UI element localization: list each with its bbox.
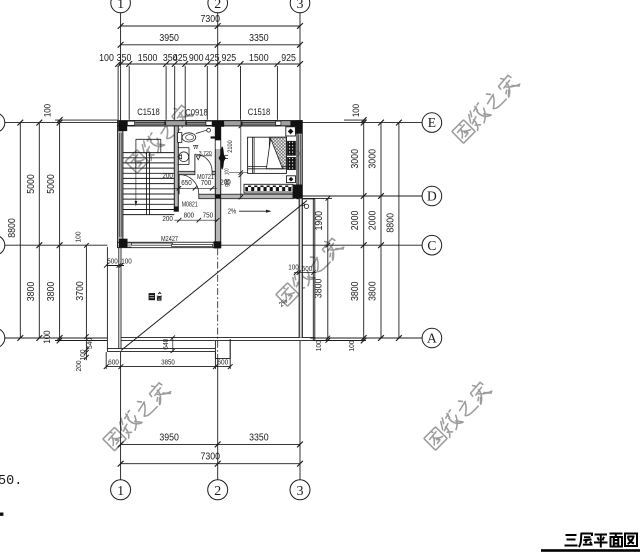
svg-text:3000: 3000 xyxy=(367,149,378,169)
watermark 1 (stairs area) xyxy=(123,102,195,174)
east wall axis3 with window xyxy=(297,121,302,199)
svg-text:7300: 7300 xyxy=(201,452,221,463)
svg-text:50.: 50. xyxy=(0,474,22,489)
svg-text:C: C xyxy=(427,238,436,253)
grid bubble E right xyxy=(422,113,442,133)
svg-text:100: 100 xyxy=(43,104,53,117)
svg-text:800: 800 xyxy=(184,213,195,220)
svg-text:A: A xyxy=(427,331,437,346)
wall-face tick line D+100 right xyxy=(302,197,332,199)
svg-text:3350: 3350 xyxy=(249,33,269,44)
svg-text:500: 500 xyxy=(107,257,118,266)
gutter top edge xyxy=(302,198,315,200)
axis C line right xyxy=(221,244,422,246)
bed blanket band xyxy=(248,165,287,167)
west wall axis1 xyxy=(118,126,123,247)
svg-text:100: 100 xyxy=(347,341,356,352)
svg-text:200: 200 xyxy=(162,173,173,180)
svg-text:3700: 3700 xyxy=(75,281,86,301)
flue duct symbol xyxy=(220,147,224,170)
cropped period xyxy=(0,513,3,516)
nightstand south xyxy=(287,176,296,183)
right chain 3000/2000/3800 xyxy=(380,123,382,338)
svg-text:2000: 2000 xyxy=(367,210,378,230)
svg-text:1500: 1500 xyxy=(249,53,269,64)
svg-text:425: 425 xyxy=(205,53,220,64)
wash basin counter xyxy=(178,147,189,149)
grid bubble D right xyxy=(422,186,442,206)
grid bubble C left (half) xyxy=(0,235,5,255)
svg-text:E: E xyxy=(428,115,436,130)
svg-text:3950: 3950 xyxy=(159,432,179,443)
axis 1 extension line bottom xyxy=(120,352,122,480)
bedroom south wall D xyxy=(221,194,293,199)
north wall E with windows xyxy=(118,121,302,126)
grid bubble 2 bottom xyxy=(208,480,228,500)
svg-text:100: 100 xyxy=(288,263,299,272)
svg-text:2%: 2% xyxy=(228,209,237,216)
axis A line left xyxy=(5,337,108,339)
axis D line right xyxy=(302,195,422,197)
svg-text:3800: 3800 xyxy=(367,281,378,301)
svg-text:C1518: C1518 xyxy=(137,107,160,118)
white frame block near axis2 xyxy=(206,121,212,125)
terrace dimension 600/3850/600 xyxy=(106,366,230,368)
svg-text:100: 100 xyxy=(42,330,52,343)
bed outline xyxy=(248,137,287,173)
svg-text:3850: 3850 xyxy=(161,358,175,367)
svg-text:100: 100 xyxy=(224,168,230,175)
svg-text:8800: 8800 xyxy=(385,213,396,233)
hall south wall D (750 segment) xyxy=(199,194,216,199)
terrace right gutter inner pair xyxy=(299,199,302,338)
sliding door M2427 leaves xyxy=(131,243,172,245)
wall-face tick line top-left xyxy=(55,119,118,121)
terrace bottom step (600 wide) xyxy=(214,341,216,359)
door M0821 leaf and swing arc xyxy=(178,175,180,195)
terrace left parapet outer xyxy=(106,247,108,352)
axis 1 extension line top xyxy=(120,13,122,121)
svg-text:3000: 3000 xyxy=(350,149,361,169)
pillow hatch area xyxy=(269,137,286,169)
wall-face tick line top-right xyxy=(344,119,366,121)
svg-text:3800: 3800 xyxy=(350,281,361,301)
svg-text:2: 2 xyxy=(214,0,221,12)
door M0721 leaf and swing arc xyxy=(194,154,196,171)
dimension 7300 bottom xyxy=(121,463,300,465)
terrace bottom inner band xyxy=(121,337,315,339)
floor drain circles xyxy=(304,204,308,208)
svg-text:900: 900 xyxy=(189,53,204,64)
svg-text:2: 2 xyxy=(214,484,221,499)
svg-text:540: 540 xyxy=(85,338,94,349)
interior dim chain 2100/100/900 xyxy=(240,126,242,197)
nightstand north xyxy=(286,127,296,136)
grid bubble 3 bottom xyxy=(290,480,310,500)
white frame block west end xyxy=(127,121,134,125)
stair upper landing break xyxy=(136,138,161,140)
svg-text:1900: 1900 xyxy=(314,211,325,231)
wardrobe block 1 xyxy=(288,141,296,155)
extension lines from window edges xyxy=(128,66,130,120)
svg-text:8800: 8800 xyxy=(7,218,18,238)
column axis2/D junction xyxy=(215,194,220,199)
svg-text:600: 600 xyxy=(108,358,119,367)
svg-text:350: 350 xyxy=(117,53,132,64)
terrace bottom parapet outer band xyxy=(107,348,215,350)
svg-text:2000: 2000 xyxy=(350,210,361,230)
wall-face tick line bottom-left xyxy=(55,340,107,342)
left inner chain 3700 xyxy=(85,245,87,360)
svg-text:600: 600 xyxy=(302,264,313,273)
svg-text:200: 200 xyxy=(162,216,173,223)
svg-text:700: 700 xyxy=(201,180,212,187)
axis 2 extension line bottom xyxy=(217,248,219,358)
column axis1/C xyxy=(119,239,128,248)
stair treads xyxy=(123,152,174,154)
right chain 100/3000/2000/3800/100 xyxy=(363,120,365,340)
svg-text:100: 100 xyxy=(314,340,323,351)
dresser / tv cabinet xyxy=(244,184,293,193)
wash basin xyxy=(179,152,189,162)
svg-text:5000: 5000 xyxy=(46,174,57,194)
svg-text:7300: 7300 xyxy=(201,14,221,25)
grid bubble 1 bottom xyxy=(111,480,131,500)
svg-text:100: 100 xyxy=(351,104,361,117)
interior wall axis2 xyxy=(215,126,220,242)
svg-text:640: 640 xyxy=(161,339,170,350)
window cross mark east wall xyxy=(297,151,301,157)
column axis3/E xyxy=(290,121,302,134)
svg-text:C0918: C0918 xyxy=(185,108,208,119)
axis 3 extension line bottom xyxy=(299,341,301,480)
wall-face tick line A+100 right xyxy=(313,340,366,342)
terrace right gutter outer pair xyxy=(312,199,314,341)
vent opening in axis2 wall xyxy=(215,140,221,149)
column axis2/C xyxy=(214,241,221,248)
svg-text:3950: 3950 xyxy=(159,33,179,44)
hall dim 800/750 xyxy=(174,219,217,221)
svg-text:750: 750 xyxy=(203,213,214,220)
svg-text:2100: 2100 xyxy=(227,140,234,153)
svg-text:1: 1 xyxy=(117,0,124,12)
svg-text:M0821: M0821 xyxy=(182,201,198,208)
dimension 3950 / 3350 top xyxy=(121,44,300,46)
grid bubble E left (half) xyxy=(0,113,5,133)
stair/bath partition wall xyxy=(174,126,178,211)
grid bubble A left (half) xyxy=(0,328,5,348)
svg-text:3800: 3800 xyxy=(26,281,37,301)
stair direction line xyxy=(135,153,137,204)
gutter dim 100/600 xyxy=(294,272,317,274)
pillow fold triangle xyxy=(266,138,282,168)
axis A line right xyxy=(310,337,422,339)
terrace slope diagonal xyxy=(121,201,307,351)
axis E line right xyxy=(302,122,422,124)
svg-text:M2427: M2427 xyxy=(161,236,178,243)
stair center rail xyxy=(146,153,148,215)
column axis1/E xyxy=(118,121,127,131)
right inner chain 1900/3800/100 xyxy=(327,198,329,340)
wardrobe block 2 xyxy=(288,157,296,169)
svg-text:925: 925 xyxy=(221,53,236,64)
svg-text:3: 3 xyxy=(297,484,304,499)
left chain 8800 xyxy=(19,123,21,338)
grid bubble A right xyxy=(422,328,442,348)
left chain 100/5000/3800/100 xyxy=(59,120,61,340)
svg-text:200: 200 xyxy=(220,179,231,186)
dimension 3950/3350 bottom xyxy=(121,443,300,445)
grid bubble C right xyxy=(422,235,442,255)
svg-text:200: 200 xyxy=(74,361,83,372)
title underline xyxy=(541,549,640,552)
column axis3/D xyxy=(293,185,302,199)
bed fold line xyxy=(251,137,253,173)
dimension detail chain top xyxy=(118,63,300,65)
wall stub black xyxy=(211,136,216,138)
terrace dimension 500/100 xyxy=(106,265,124,267)
svg-text:3350: 3350 xyxy=(249,432,269,443)
white frame block near axis3 xyxy=(276,121,281,125)
svg-text:3800: 3800 xyxy=(46,281,57,301)
terrace label LUTAI xyxy=(149,293,155,300)
black end cap of partition wall xyxy=(174,207,179,212)
dimension 7300 top xyxy=(121,25,300,27)
grid bubble 1 top xyxy=(111,0,131,13)
axis 2 extension line top xyxy=(217,13,219,121)
axis 3 extension line top xyxy=(299,13,301,121)
svg-text:5000: 5000 xyxy=(26,174,37,194)
toilet xyxy=(178,133,182,143)
column axis2/E xyxy=(212,121,224,127)
axis C line left xyxy=(5,244,108,246)
svg-text:650: 650 xyxy=(181,180,192,187)
svg-text:100: 100 xyxy=(78,350,87,361)
svg-text:W: W xyxy=(193,145,198,151)
svg-text:1500: 1500 xyxy=(138,53,158,64)
bathroom dim 650/700 xyxy=(174,187,217,189)
south wall C with door M2427 xyxy=(118,242,221,247)
left chain 5000/3800 xyxy=(38,123,40,338)
svg-text:1: 1 xyxy=(117,484,124,499)
svg-text:100: 100 xyxy=(74,232,83,243)
grid bubble 2 top xyxy=(208,0,228,13)
svg-text:100: 100 xyxy=(99,53,114,64)
axis E line left xyxy=(5,122,118,124)
title SAN CENG PING MIAN TU (third floor plan) xyxy=(565,534,638,548)
grid bubble 3 top xyxy=(290,0,310,13)
bathroom south wall xyxy=(178,171,195,174)
right chain 8800 xyxy=(398,123,400,338)
svg-text:925: 925 xyxy=(281,53,296,64)
svg-text:100: 100 xyxy=(121,257,132,266)
svg-text:C1518: C1518 xyxy=(248,107,271,118)
dim 640 parapet xyxy=(172,338,174,351)
vent pipe line and circle xyxy=(196,130,207,133)
svg-text:D: D xyxy=(427,189,437,204)
terrace left parapet inner pair xyxy=(118,248,120,349)
svg-text:3: 3 xyxy=(297,0,304,12)
svg-text:425: 425 xyxy=(173,53,188,64)
